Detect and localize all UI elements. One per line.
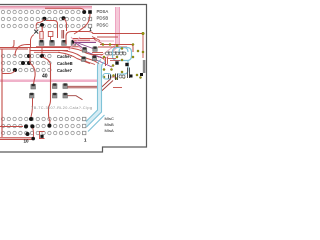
wire purple diag 3 (86, 52, 102, 59)
connector F1 small (116, 74, 118, 81)
wire branch to via (2, 71, 15, 74)
wire arc mid-left (15, 45, 30, 57)
power trace mid pink band (0, 79, 102, 82)
wire maroon B (68, 87, 100, 89)
pad P4 black (72, 40, 75, 43)
junction vias J2 (13, 54, 44, 72)
svg-text:MIsC: MIsC (105, 116, 114, 121)
capacitor C3 (40, 132, 45, 139)
wire via a route right (46, 21, 58, 39)
no-connect marker X (34, 30, 38, 34)
wire pink band exit 1 (98, 45, 116, 58)
op-amp U1 inner arc (119, 48, 128, 53)
wire red stub right2 (113, 87, 122, 89)
wire bottom double A (0, 137, 33, 139)
wire R2 lead (50, 37, 52, 41)
svg-text:40: 40 (42, 74, 48, 80)
wire cluster horiz A (72, 38, 95, 40)
wire fan 1 (66, 48, 106, 67)
pad P18 (63, 93, 68, 98)
svg-text:TB-7C-3007-RL20-Cala?-C/pg: TB-7C-3007-RL20-Cala?-C/pg (31, 106, 92, 110)
wire purple diag 2 (78, 43, 93, 49)
wire R1 lead top (41, 27, 43, 32)
pad P4 (71, 41, 76, 46)
wire cluster extra A (108, 58, 116, 60)
wire pink horizontal (74, 40, 114, 42)
pad P8 (93, 47, 97, 51)
junction via row2 b (62, 16, 66, 20)
wire cluster horiz B (74, 39, 90, 41)
pad P10 (92, 56, 96, 60)
wire fan 3 (58, 52, 90, 63)
wire cyan band fill (86, 64, 102, 127)
pad P15 (52, 84, 57, 89)
wire cyan band edge 2 (87, 62, 106, 128)
wire purple bus (74, 42, 96, 44)
wire pad diag (85, 61, 95, 65)
pad P13 black (130, 75, 133, 78)
svg-text:Cache7: Cache7 (57, 68, 73, 73)
wire pink band exit 2 (104, 45, 120, 60)
connector J1 (1, 10, 91, 28)
pad P11 black (115, 61, 118, 64)
resistor R1 body (40, 32, 43, 40)
wire right bus B (98, 46, 127, 48)
svg-text:PDSA: PDSA (97, 9, 109, 14)
svg-text:MIsA: MIsA (105, 128, 114, 133)
power trace top (0, 6, 92, 10)
wire cluster extra B (110, 60, 120, 62)
wire top row trace (45, 8, 84, 10)
wire diag small (94, 39, 103, 44)
wire fan 2 (62, 51, 100, 70)
pad P3 (62, 41, 67, 46)
wire row2 stub (0, 126, 23, 128)
svg-text:PDSC: PDSC (97, 22, 109, 27)
wire pink diag 1 (69, 37, 80, 50)
wire maroon A (68, 85, 100, 87)
capacitor C4 inside U2 (109, 75, 111, 79)
net bus pink band vertical (116, 7, 120, 45)
pad P12 black (125, 63, 128, 66)
wire long S trace (42, 57, 51, 124)
wire bottom double B (0, 139, 33, 141)
svg-text:MIsB: MIsB (105, 122, 114, 127)
wire X down to bus (31, 35, 35, 49)
wire maroon diag B (101, 81, 113, 92)
op-amp U2 (103, 74, 111, 80)
wire red pair vertical (105, 57, 107, 66)
wire via b route (64, 19, 67, 32)
connector J3 (1, 117, 86, 134)
connector J2 (1, 54, 51, 71)
pad P6 (29, 93, 34, 98)
wire under horiz (97, 36, 118, 38)
junction vias J3 (24, 117, 51, 136)
junction via bottom (31, 137, 35, 141)
pad P17 (52, 93, 57, 98)
via right end (142, 32, 145, 35)
wire cyan down (118, 60, 128, 74)
pad P14 black (140, 73, 143, 76)
wire red stub right (110, 76, 116, 78)
pad right bar (143, 60, 146, 73)
wire purple diag 1 (76, 43, 84, 49)
junction via row3 c (40, 23, 44, 27)
wire link to bottom (33, 128, 34, 137)
wire left corner up (0, 40, 14, 48)
pad P9 (82, 57, 86, 61)
wire right bus A (100, 45, 133, 53)
wire mid bus B (30, 50, 68, 52)
wire right horiz C (92, 52, 103, 54)
pad P7 (82, 48, 86, 52)
svg-text:CacheB: CacheB (57, 61, 73, 66)
wire pink diag 2 (71, 37, 82, 50)
wire maroon C (68, 96, 83, 100)
wire left bus (0, 47, 70, 49)
wire mid bus C (34, 51, 60, 53)
wire pad chain down (31, 98, 33, 117)
via cluster (102, 43, 144, 79)
svg-text:10: 10 (24, 138, 30, 143)
wire mid bus A (36, 46, 80, 48)
wire to right net (66, 32, 142, 45)
board outline frame (0, 5, 147, 153)
wire X stub (35, 27, 37, 30)
wire cluster extra C (92, 37, 100, 41)
wire cyan diag 3 (88, 115, 105, 132)
op-amp U1 outline (113, 48, 132, 61)
junction via row2 a (43, 17, 47, 21)
pad P2 (50, 41, 55, 46)
wire via chain 2 (41, 48, 43, 55)
wire left bus 2 (0, 48, 28, 50)
wire purple diag 4 (97, 60, 113, 67)
resistor R2 body (48, 32, 53, 37)
capacitor C1 (62, 30, 64, 39)
svg-text:PDSB: PDSB (97, 16, 109, 21)
wire via chain (30, 48, 35, 85)
wire right horiz D (92, 54, 103, 56)
wire cyan band edge 1 (86, 60, 101, 122)
wire from pin 16 down (74, 14, 90, 34)
pad P5 (31, 84, 36, 89)
pad P1 (39, 41, 44, 46)
pad P16 (63, 84, 68, 89)
pad C3 black (40, 135, 43, 138)
resistor network RN1 (106, 51, 127, 55)
wire via c route (41, 26, 43, 32)
wire via a route (36, 19, 44, 26)
wire maroon diag A (99, 79, 111, 90)
wire right vertical (142, 35, 144, 58)
capacitor C2 (128, 68, 130, 79)
wire left vertical (1, 49, 3, 137)
